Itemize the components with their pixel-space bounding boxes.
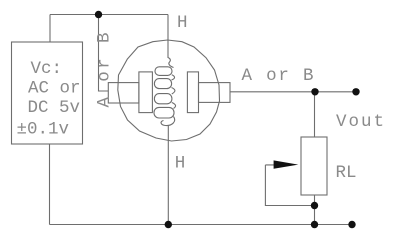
junction node bottom heater bbox=[165, 221, 172, 228]
svg-text:RL: RL bbox=[336, 163, 357, 183]
wire RL bottom lead bbox=[314, 195, 316, 225]
heater coil connector 1-2 bbox=[172, 75, 175, 80]
voltage source box Vc bbox=[12, 42, 83, 144]
wire top horizontal from Vc box to heater top bbox=[50, 14, 168, 16]
svg-text:H: H bbox=[175, 154, 186, 174]
resistor RL body bbox=[301, 137, 327, 195]
terminal node bottom right bbox=[348, 221, 355, 228]
wire from node to sensor lead A/B left bbox=[99, 15, 109, 92]
heater coil turn 3 bbox=[154, 94, 172, 104]
junction node wiper tap bbox=[311, 202, 318, 209]
junction node top wire bbox=[95, 11, 102, 18]
sensor lead pin A/B left bbox=[108, 83, 139, 103]
wire heater H bottom lead bbox=[167, 126, 169, 225]
svg-text:A or B: A or B bbox=[242, 66, 316, 86]
svg-text:A or B: A or B bbox=[95, 30, 115, 107]
junction node bottom RL bbox=[311, 221, 318, 228]
svg-text:Vc:: Vc: bbox=[31, 59, 63, 79]
heater coil connector 2-3 bbox=[172, 88, 175, 95]
svg-text:AC or: AC or bbox=[28, 79, 81, 99]
wire Vc box bottom lead bbox=[49, 144, 51, 225]
svg-text:±0.1v: ±0.1v bbox=[17, 120, 70, 140]
RL wiper arm bbox=[265, 165, 314, 206]
wire bottom rail bbox=[50, 224, 353, 226]
sensor body (gas sensor envelope) bbox=[118, 40, 220, 141]
heater coil connector 3-4 bbox=[172, 103, 176, 109]
svg-text:H: H bbox=[177, 13, 188, 33]
heater coil turn 1 bbox=[155, 67, 172, 76]
heater coil turn 2 bbox=[154, 79, 171, 89]
sensor electrode right bbox=[187, 72, 198, 113]
junction node Vout bbox=[311, 88, 318, 95]
wire Vc box top lead bbox=[49, 15, 51, 43]
heater coil turn 4 bbox=[154, 107, 174, 118]
sensor electrode left bbox=[139, 72, 153, 113]
heater coil top lead and entry bbox=[168, 15, 174, 68]
RL wiper arrowhead bbox=[274, 160, 299, 168]
terminal node Vout right bbox=[352, 88, 359, 95]
svg-text:DC 5v: DC 5v bbox=[28, 98, 81, 118]
wire sensor output A/B right to Vout node bbox=[230, 91, 356, 93]
heater coil exit hook bbox=[161, 117, 175, 126]
sensor lead pin A/B right bbox=[199, 83, 231, 103]
svg-text:Vout: Vout bbox=[336, 112, 386, 132]
wire RL top lead bbox=[314, 92, 316, 137]
